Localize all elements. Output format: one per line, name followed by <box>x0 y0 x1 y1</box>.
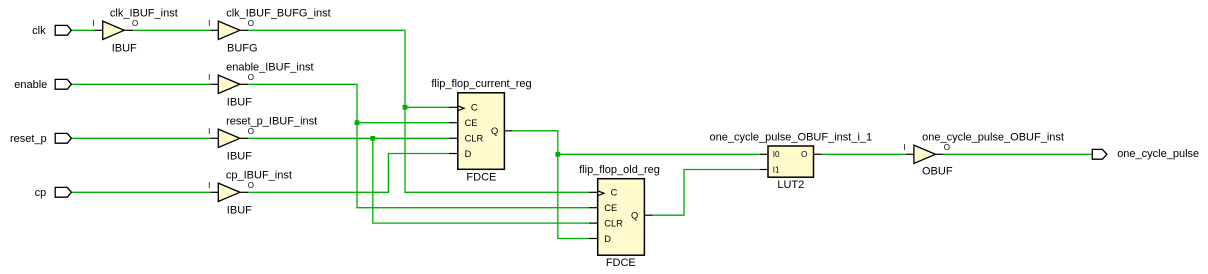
svg-text:CE: CE <box>465 118 478 128</box>
svg-text:reset_p: reset_p <box>10 133 47 145</box>
svg-text:C: C <box>611 188 618 198</box>
svg-text:D: D <box>604 234 611 244</box>
svg-text:one_cycle_pulse_OBUF_inst_i_1: one_cycle_pulse_OBUF_inst_i_1 <box>709 132 872 144</box>
svg-text:I: I <box>208 73 210 82</box>
svg-text:IBUF: IBUF <box>227 96 252 108</box>
svg-text:clk_IBUF_inst: clk_IBUF_inst <box>110 7 178 19</box>
svg-text:I: I <box>208 19 210 28</box>
svg-text:CE: CE <box>604 203 617 213</box>
svg-text:OBUF: OBUF <box>922 166 953 178</box>
svg-text:I: I <box>92 19 94 28</box>
svg-text:CLR: CLR <box>465 134 484 144</box>
svg-text:enable_IBUF_inst: enable_IBUF_inst <box>226 61 313 73</box>
svg-text:O: O <box>248 19 254 28</box>
svg-text:O: O <box>248 73 254 82</box>
svg-text:FDCE: FDCE <box>606 257 636 269</box>
svg-text:I0: I0 <box>773 150 780 159</box>
svg-text:I: I <box>903 143 905 152</box>
svg-text:IBUF: IBUF <box>227 204 252 216</box>
svg-text:FDCE: FDCE <box>466 172 496 184</box>
svg-text:IBUF: IBUF <box>227 150 252 162</box>
svg-text:flip_flop_old_reg: flip_flop_old_reg <box>579 164 660 176</box>
svg-text:O: O <box>248 181 254 190</box>
svg-text:BUFG: BUFG <box>227 42 258 54</box>
svg-text:CLR: CLR <box>604 219 623 229</box>
svg-text:I: I <box>208 181 210 190</box>
svg-text:flip_flop_current_reg: flip_flop_current_reg <box>431 78 531 90</box>
svg-text:D: D <box>465 149 472 159</box>
svg-text:O: O <box>132 19 138 28</box>
svg-text:clk_IBUF_BUFG_inst: clk_IBUF_BUFG_inst <box>226 7 331 19</box>
svg-text:one_cycle_pulse_OBUF_inst: one_cycle_pulse_OBUF_inst <box>922 131 1064 143</box>
svg-text:O: O <box>248 127 254 136</box>
svg-text:cp: cp <box>35 187 47 199</box>
svg-text:enable: enable <box>14 79 47 91</box>
svg-text:LUT2: LUT2 <box>777 179 804 191</box>
svg-text:reset_p_IBUF_inst: reset_p_IBUF_inst <box>226 115 317 127</box>
svg-text:Q: Q <box>631 211 638 221</box>
svg-text:one_cycle_pulse: one_cycle_pulse <box>1117 148 1199 160</box>
svg-text:I1: I1 <box>773 165 780 174</box>
svg-text:clk: clk <box>32 25 46 37</box>
svg-text:IBUF: IBUF <box>112 42 137 54</box>
svg-text:O: O <box>944 143 950 152</box>
svg-text:cp_IBUF_inst: cp_IBUF_inst <box>226 169 292 181</box>
svg-text:I: I <box>208 127 210 136</box>
svg-text:O: O <box>801 150 807 159</box>
svg-text:C: C <box>471 103 478 113</box>
svg-text:Q: Q <box>491 126 498 136</box>
